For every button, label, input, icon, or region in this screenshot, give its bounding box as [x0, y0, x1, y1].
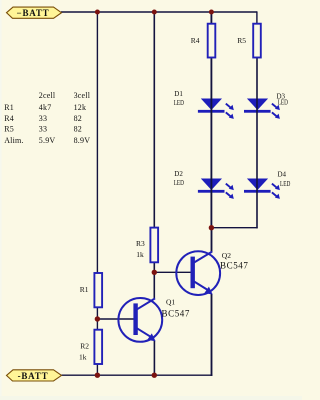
- resistor R2, value 1k: [79, 330, 102, 364]
- wire connector D4 column to node K: [211, 227, 258, 229]
- resistor R4: [191, 24, 216, 58]
- node B2: R3 / Q1 collector / Q2 base: [152, 270, 157, 275]
- svg-text:R2: R2: [80, 342, 89, 351]
- svg-text:R1: R1: [4, 103, 14, 112]
- svg-text:R5: R5: [237, 36, 246, 45]
- resistor R1: [80, 273, 102, 307]
- svg-text:3cell: 3cell: [74, 91, 91, 100]
- transistor Q1, BC547: [118, 298, 190, 342]
- svg-text:Q2: Q2: [222, 251, 231, 260]
- resistor R5: [237, 24, 261, 58]
- node K: LED cathodes to Q2 collector: [209, 225, 214, 230]
- svg-text:D1: D1: [174, 90, 183, 98]
- node B1: R1 / R2 / Q1 base: [95, 316, 100, 321]
- node: bottom rail at Q1 emitter: [152, 373, 157, 378]
- svg-text:D4: D4: [278, 171, 287, 179]
- wire node K to Q2 collector: [211, 228, 213, 252]
- svg-text:82: 82: [74, 114, 82, 123]
- wire Q2 emitter to -BATT rail: [211, 294, 213, 376]
- node: rail junction at R1 column: [95, 10, 100, 15]
- resistor R3, value 1k: [136, 228, 158, 263]
- wire Q1 emitter to -BATT rail: [153, 341, 155, 376]
- wire R1 bottom to R2 top: [96, 307, 98, 330]
- LED D3: [244, 93, 288, 119]
- annotation table: component values for 2cell / 3cell supply: [4, 91, 91, 145]
- svg-text:12k: 12k: [74, 103, 87, 112]
- LED D2: [174, 170, 234, 199]
- LED D4: [244, 171, 290, 199]
- svg-text:LED: LED: [174, 99, 184, 107]
- page edge tint bottom: [0, 396, 302, 400]
- LED D1: [174, 90, 234, 119]
- page edge tint left: [0, 0, 2, 400]
- svg-text:-BATT: -BATT: [18, 371, 49, 381]
- svg-text:33: 33: [39, 114, 47, 123]
- svg-text:BC547: BC547: [220, 261, 249, 271]
- svg-text:R4: R4: [4, 114, 14, 123]
- wire bottom rail: [62, 374, 213, 376]
- svg-text:33: 33: [39, 125, 47, 134]
- wire node B2 to Q2 base: [154, 271, 193, 273]
- svg-text:R1: R1: [80, 285, 89, 294]
- svg-text:LED: LED: [278, 99, 288, 107]
- wire top-right corner down to R5: [256, 11, 258, 24]
- svg-text:BC547: BC547: [162, 309, 191, 319]
- wire rail through R4, D1, D2 to node K: [210, 12, 212, 228]
- svg-text:1k: 1k: [136, 250, 144, 259]
- svg-text:Alim.: Alim.: [4, 136, 23, 145]
- svg-text:D2: D2: [174, 170, 183, 178]
- svg-text:5.9V: 5.9V: [39, 136, 56, 145]
- svg-text:R4: R4: [191, 36, 200, 45]
- svg-text:LED: LED: [174, 179, 184, 187]
- svg-text:82: 82: [74, 125, 82, 134]
- wire R5 through D3, D4 down to connector: [256, 24, 258, 228]
- svg-text:LED: LED: [280, 180, 290, 188]
- wire R3 bottom / Q1 collector vertical: [153, 263, 155, 299]
- svg-text:R3: R3: [136, 239, 145, 248]
- wire top rail: [61, 11, 257, 13]
- node: bottom rail at R2: [95, 373, 100, 378]
- transistor Q2, BC547: [176, 251, 248, 295]
- svg-text:−BATT: −BATT: [17, 8, 50, 18]
- svg-text:R5: R5: [4, 125, 14, 134]
- svg-text:2cell: 2cell: [39, 91, 56, 100]
- svg-text:4k7: 4k7: [39, 103, 52, 112]
- wire rail to R3: [153, 12, 155, 228]
- power flag -BATT: [7, 370, 62, 381]
- power flag +BATT: [7, 7, 62, 18]
- svg-text:Q1: Q1: [166, 298, 175, 307]
- wire node B1 to Q1 base: [97, 318, 136, 320]
- node: rail junction at R3 column: [152, 10, 157, 15]
- wire R2 bottom to -BATT rail: [96, 364, 98, 376]
- wire +BATT rail to R1: [96, 12, 98, 274]
- svg-text:8.9V: 8.9V: [74, 136, 91, 145]
- svg-text:1k: 1k: [79, 353, 87, 362]
- node: rail junction at R4 column: [209, 10, 214, 15]
